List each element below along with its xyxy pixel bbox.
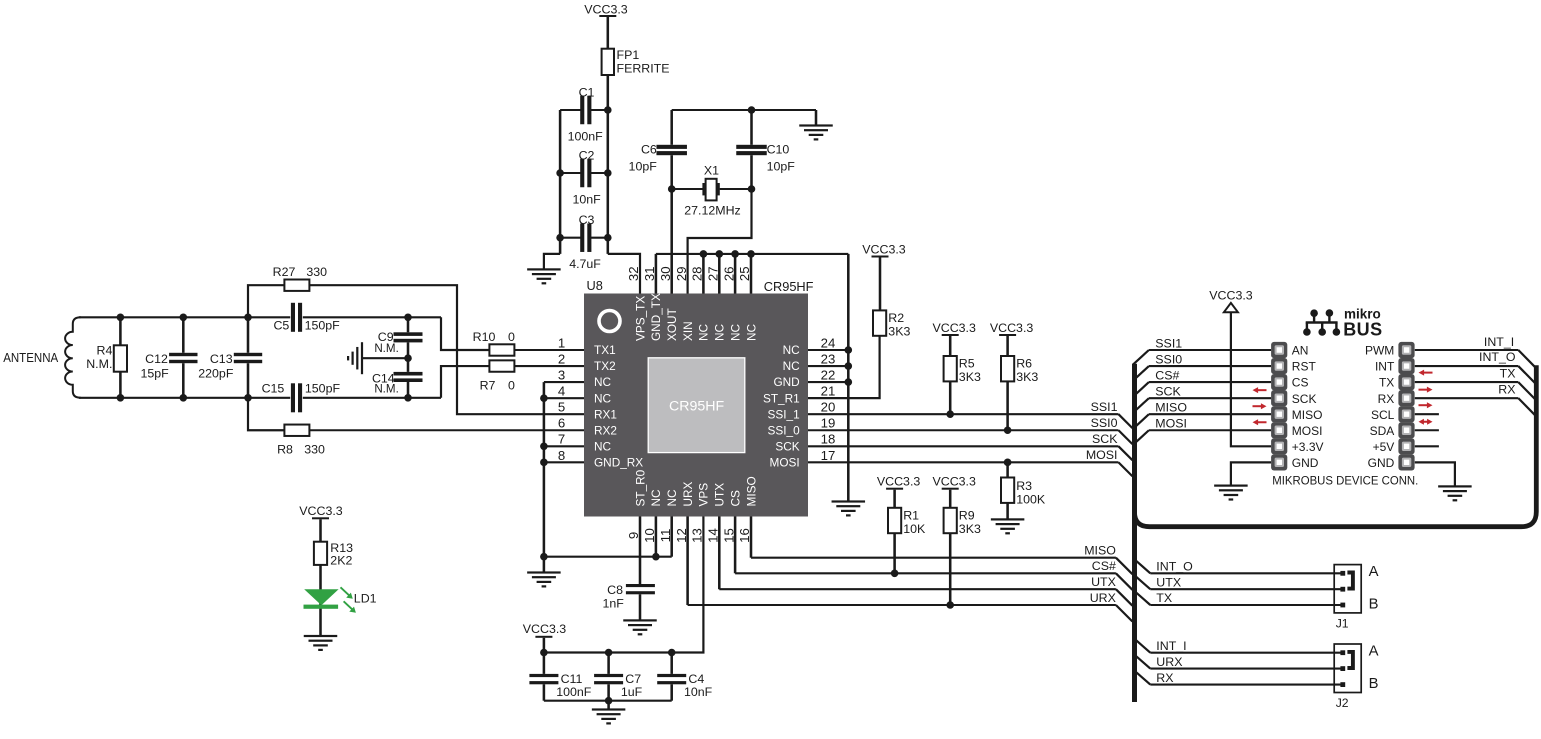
svg-text:N.M.: N.M. [374,342,398,355]
svg-text:TX2: TX2 [594,359,616,373]
svg-text:MISO: MISO [744,476,758,506]
svg-text:C2: C2 [579,149,595,163]
svg-text:CS#: CS# [1092,559,1116,573]
svg-text:22: 22 [821,368,836,383]
svg-text:8: 8 [558,448,565,463]
svg-text:PWM: PWM [1365,344,1394,358]
svg-text:10pF: 10pF [767,160,796,174]
svg-text:NC: NC [594,375,612,389]
svg-text:MOSI: MOSI [1086,448,1118,462]
svg-text:BUS: BUS [1343,320,1383,340]
svg-text:10nF: 10nF [684,685,713,699]
svg-text:26: 26 [721,266,736,281]
svg-text:20: 20 [821,400,836,415]
svg-text:NC: NC [713,323,727,341]
svg-text:3K3: 3K3 [888,325,910,339]
svg-text:1uF: 1uF [621,685,643,699]
svg-text:J1: J1 [1336,617,1349,631]
svg-text:1nF: 1nF [602,596,624,610]
svg-text:VCC3.3: VCC3.3 [299,504,342,518]
svg-text:NC: NC [697,323,711,341]
svg-text:MOSI: MOSI [770,455,800,469]
svg-text:GND_RX: GND_RX [594,455,643,469]
svg-text:25: 25 [737,266,752,281]
svg-text:SCL: SCL [1371,408,1395,422]
svg-text:R1: R1 [903,509,919,523]
svg-text:CS: CS [728,490,742,507]
svg-text:RX: RX [1378,392,1395,406]
svg-text:VCC3.3: VCC3.3 [877,475,920,489]
svg-text:MIKROBUS DEVICE CONN.: MIKROBUS DEVICE CONN. [1272,473,1418,487]
svg-text:23: 23 [821,351,836,366]
svg-text:C15: C15 [262,382,285,396]
svg-text:MISO: MISO [1084,544,1116,558]
svg-text:UTX: UTX [1156,575,1181,589]
svg-text:UTX: UTX [1091,575,1116,589]
svg-text:3K3: 3K3 [959,370,981,384]
svg-text:XOUT: XOUT [665,308,679,341]
svg-text:R10: R10 [473,330,496,344]
svg-text:ST_R0: ST_R0 [633,469,647,506]
svg-text:VCC3.3: VCC3.3 [990,321,1033,335]
svg-text:MISO: MISO [1292,408,1323,422]
svg-text:31: 31 [642,266,657,281]
svg-text:TX: TX [1500,367,1516,381]
svg-text:R6: R6 [1016,357,1032,371]
svg-text:ANTENNA: ANTENNA [3,350,58,365]
svg-text:4: 4 [558,384,565,399]
svg-text:SSI1: SSI1 [1155,336,1182,350]
svg-text:MISO: MISO [1155,401,1187,415]
svg-text:10nF: 10nF [573,193,602,207]
svg-text:R8: R8 [277,442,293,456]
svg-text:A: A [1369,564,1379,580]
svg-text:INT_O: INT_O [1156,560,1193,574]
svg-text:6: 6 [558,416,565,431]
svg-text:ST_R1: ST_R1 [763,391,800,405]
svg-text:3: 3 [558,368,565,383]
svg-text:NC: NC [594,391,612,405]
svg-text:XIN: XIN [681,321,695,341]
svg-text:R4: R4 [97,344,113,358]
svg-text:1: 1 [558,335,565,350]
svg-text:GND_TX: GND_TX [649,293,663,341]
svg-text:100nF: 100nF [568,130,604,144]
svg-text:C5: C5 [273,319,289,333]
svg-text:X1: X1 [704,164,719,178]
svg-text:C12: C12 [145,352,168,366]
svg-text:VCC3.3: VCC3.3 [933,321,976,335]
svg-text:C8: C8 [607,583,623,597]
svg-text:R2: R2 [888,311,904,325]
svg-text:27: 27 [706,266,721,281]
svg-text:VCC3.3: VCC3.3 [1209,289,1252,303]
svg-text:15pF: 15pF [140,367,169,381]
svg-text:19: 19 [821,416,836,431]
svg-text:SSI0: SSI0 [1155,352,1182,366]
svg-text:SSI_0: SSI_0 [768,423,801,437]
svg-text:C1: C1 [579,86,595,100]
svg-text:NC: NC [728,323,742,341]
svg-text:NC: NC [744,323,758,341]
svg-text:R5: R5 [959,357,975,371]
svg-text:TX1: TX1 [594,343,616,357]
svg-text:URX: URX [1090,591,1116,605]
svg-text:27.12MHz: 27.12MHz [684,204,740,218]
svg-text:RX: RX [1156,671,1173,685]
svg-text:SCK: SCK [1155,385,1181,399]
svg-text:VPS: VPS [697,483,711,507]
svg-text:5: 5 [558,400,565,415]
svg-text:29: 29 [674,266,689,281]
svg-text:J2: J2 [1336,696,1349,710]
svg-text:SCK: SCK [775,439,799,453]
svg-text:SDA: SDA [1370,424,1395,438]
svg-text:7: 7 [558,432,565,447]
svg-text:C6: C6 [641,143,657,157]
svg-text:2: 2 [558,351,565,366]
svg-text:NC: NC [594,439,612,453]
svg-text:MOSI: MOSI [1155,417,1187,431]
svg-text:4.7uF: 4.7uF [569,257,601,271]
svg-text:100K: 100K [1016,492,1046,506]
svg-text:SSI1: SSI1 [1091,400,1118,414]
svg-text:2K2: 2K2 [330,553,352,567]
svg-text:VCC3.3: VCC3.3 [862,243,905,257]
svg-text:VPS_TX: VPS_TX [633,296,647,341]
svg-text:NC: NC [665,489,679,507]
svg-text:CR95HF: CR95HF [764,279,814,294]
svg-text:100nF: 100nF [556,685,592,699]
svg-text:R9: R9 [959,509,975,523]
svg-text:10K: 10K [903,522,926,536]
svg-text:CR95HF: CR95HF [669,398,725,414]
svg-text:GND: GND [773,375,799,389]
svg-text:INT_I: INT_I [1156,639,1186,653]
svg-text:R3: R3 [1016,479,1032,493]
svg-text:NC: NC [783,343,801,357]
svg-text:CS#: CS# [1155,369,1179,383]
svg-text:+5V: +5V [1373,440,1395,454]
svg-text:C13: C13 [210,352,233,366]
svg-text:330: 330 [306,265,327,279]
svg-text:URX: URX [681,481,695,506]
svg-text:SCK: SCK [1292,392,1317,406]
svg-text:VCC3.3: VCC3.3 [523,622,566,636]
svg-text:NC: NC [783,359,801,373]
svg-text:N.M.: N.M. [86,357,112,371]
svg-text:AN: AN [1292,344,1309,358]
svg-text:220pF: 220pF [198,367,234,381]
svg-text:SSI_1: SSI_1 [768,407,800,421]
svg-text:0: 0 [508,330,515,344]
svg-text:C10: C10 [767,143,790,157]
svg-text:GND: GND [1292,456,1319,470]
svg-text:SCK: SCK [1092,432,1118,446]
svg-text:R27: R27 [273,265,296,279]
svg-text:GND: GND [1368,456,1395,470]
svg-text:10pF: 10pF [629,160,658,174]
svg-text:10: 10 [642,528,657,543]
svg-text:RST: RST [1292,360,1317,374]
svg-text:INT: INT [1375,360,1395,374]
svg-text:INT_O: INT_O [1479,350,1516,364]
svg-text:11: 11 [658,529,673,543]
svg-text:VCC3.3: VCC3.3 [584,3,627,17]
svg-text:17: 17 [821,448,836,463]
svg-text:B: B [1369,597,1379,613]
svg-text:CS: CS [1292,376,1309,390]
svg-text:R7: R7 [480,378,496,392]
svg-text:18: 18 [821,432,836,447]
svg-text:RX: RX [1498,382,1515,396]
svg-text:FP1: FP1 [617,48,640,62]
svg-text:3K3: 3K3 [959,522,981,536]
svg-text:+3.3V: +3.3V [1292,440,1324,454]
svg-text:NC: NC [649,489,663,507]
svg-text:URX: URX [1156,655,1182,669]
svg-text:28: 28 [690,266,705,281]
svg-text:TX: TX [1156,591,1172,605]
svg-text:30: 30 [658,266,673,281]
svg-text:24: 24 [821,335,836,350]
svg-text:TX: TX [1379,376,1394,390]
svg-text:330: 330 [304,442,325,456]
svg-text:MOSI: MOSI [1292,424,1323,438]
svg-text:FERRITE: FERRITE [617,62,670,76]
svg-text:150pF: 150pF [305,319,341,333]
svg-text:N.M.: N.M. [374,382,398,395]
svg-text:32: 32 [626,266,641,281]
svg-text:C3: C3 [579,213,595,227]
svg-text:VCC3.3: VCC3.3 [933,475,976,489]
svg-text:21: 21 [821,384,836,399]
svg-text:UTX: UTX [713,483,727,507]
svg-text:RX2: RX2 [594,423,617,437]
svg-text:LD1: LD1 [354,592,377,606]
svg-text:SSI0: SSI0 [1091,416,1118,430]
svg-text:RX1: RX1 [594,407,617,421]
svg-text:U8: U8 [587,278,603,293]
svg-text:150pF: 150pF [305,382,341,396]
svg-text:INT_I: INT_I [1484,335,1514,349]
svg-text:A: A [1369,644,1379,660]
svg-text:B: B [1369,676,1379,692]
svg-text:3K3: 3K3 [1016,370,1038,384]
svg-text:0: 0 [508,378,515,392]
